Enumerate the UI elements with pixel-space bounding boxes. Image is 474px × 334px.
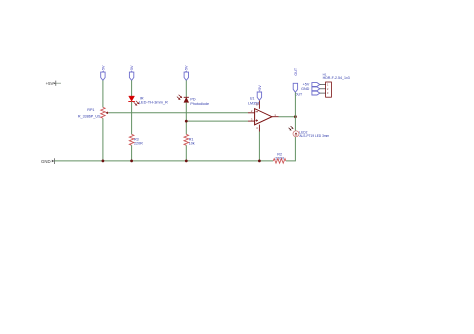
power port +5V col1 xyxy=(101,65,106,80)
wire col2 top xyxy=(131,80,133,96)
wire col3 top xyxy=(185,80,187,97)
power port +5V col2 xyxy=(129,65,134,80)
node junction rail col2 xyxy=(130,160,133,163)
svg-text:+5V: +5V xyxy=(303,83,310,87)
svg-text:+5V: +5V xyxy=(101,65,105,72)
svg-text:10k: 10k xyxy=(189,141,195,145)
resistor R1 10k xyxy=(184,134,195,145)
net port OUT flag xyxy=(293,83,303,96)
wire OUT flag down to output node xyxy=(294,92,296,116)
svg-text:OUT: OUT xyxy=(294,67,298,76)
potentiometer RP1 R_3386P_US xyxy=(78,107,109,118)
op-amp U1 LM358 xyxy=(248,97,279,132)
wire GND rail xyxy=(55,160,274,162)
svg-text:Photodiode: Photodiode xyxy=(190,102,209,106)
node junction rail op-amp pin4 xyxy=(258,160,261,163)
wire output node down to LED2 xyxy=(294,117,296,131)
global label OUT connector pin3 xyxy=(312,91,320,95)
wire col3 bottom xyxy=(185,145,187,161)
wire col1 top xyxy=(102,80,104,107)
node output junction xyxy=(294,115,297,118)
connector H1 HDR-F-2.54_1x3 xyxy=(320,73,350,98)
svg-text:OUT: OUT xyxy=(295,92,303,96)
svg-text:+5V: +5V xyxy=(258,85,262,92)
wire line2 junction to op-amp pin3 xyxy=(186,120,248,122)
wire op-amp output xyxy=(279,116,296,118)
svg-text:GND: GND xyxy=(301,87,310,91)
svg-text:+5V: +5V xyxy=(46,81,54,86)
global label GND connector pin2 xyxy=(301,87,320,91)
svg-text:+5V: +5V xyxy=(185,65,189,72)
svg-text:ALS-PT19 LED 3mm: ALS-PT19 LED 3mm xyxy=(299,134,329,138)
wire col2 mid xyxy=(131,102,133,135)
wire col3 mid xyxy=(185,102,187,134)
power flag GND (left) xyxy=(41,158,54,164)
resistor R2 220R xyxy=(273,153,286,164)
svg-text:U1: U1 xyxy=(250,97,255,101)
svg-text:LED-TH-3mm_R: LED-TH-3mm_R xyxy=(139,100,168,105)
node junction PD/R1 xyxy=(185,120,188,123)
LED IR LED-TH-3mm_R xyxy=(128,96,168,106)
power flag +5V (left, floating) xyxy=(46,81,61,87)
wire line1 pot wiper to op-amp pin2 xyxy=(108,112,248,114)
svg-text:220R: 220R xyxy=(275,157,284,161)
photodiode PD xyxy=(177,95,209,106)
wire col2 bottom xyxy=(131,145,133,161)
svg-text:R_3386P_US: R_3386P_US xyxy=(78,115,101,119)
power port +5V col3 xyxy=(184,65,189,80)
power port +5V op-amp xyxy=(257,85,262,101)
wire op-amp pin4 to rail xyxy=(258,132,260,161)
svg-text:+5V: +5V xyxy=(130,65,134,72)
svg-text:GND: GND xyxy=(41,159,51,164)
global label +5V connector pin1 xyxy=(303,83,320,87)
node junction rail col1 xyxy=(102,160,105,163)
wire col1 bottom xyxy=(102,118,104,161)
photo sensor LED2 ALS-PT19 xyxy=(289,126,330,138)
wire LED2 to bottom rail corner xyxy=(286,137,296,161)
svg-text:RP1: RP1 xyxy=(87,108,94,112)
resistor R3 220R xyxy=(129,134,143,145)
svg-text:HDR-F-2.54_1x3: HDR-F-2.54_1x3 xyxy=(323,76,350,80)
node junction rail col3 xyxy=(185,160,188,163)
svg-text:220R: 220R xyxy=(134,141,143,145)
